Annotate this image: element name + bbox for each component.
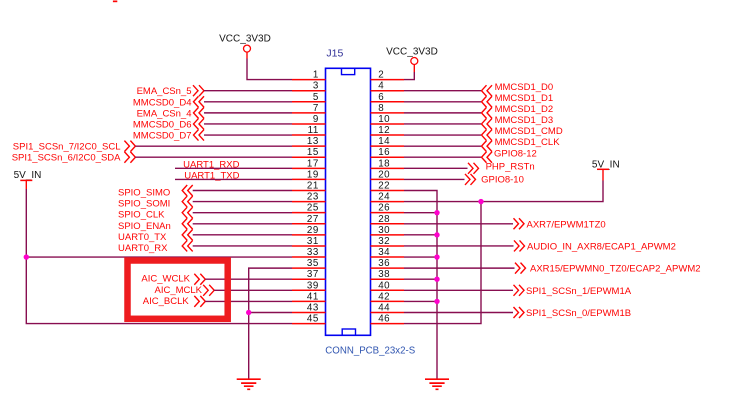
- svg-text:AUDIO_IN_AXR8/ECAP1_APWM2: AUDIO_IN_AXR8/ECAP1_APWM2: [527, 241, 676, 252]
- pin 26 (stub + number): [371, 203, 405, 214]
- svg-text:MMCSD0_D6: MMCSD0_D6: [133, 119, 192, 130]
- wire MMCSD0_D7 to pin 11: [204, 134, 292, 136]
- wire ground bus vertical (pins 22,26,30,34,38,42): [404, 191, 437, 380]
- pin 36 (stub + number): [371, 258, 405, 269]
- svg-text:44: 44: [378, 302, 390, 313]
- pin 45 (stub + number): [292, 314, 326, 325]
- wire pin 42 to ground bus: [404, 300, 437, 302]
- net label UART0_RX (pin 31): [118, 240, 193, 254]
- wire ground branch from pin24 row down to pin 46 row: [404, 202, 481, 324]
- pin 40 (stub + number): [371, 280, 405, 291]
- svg-text:15: 15: [307, 147, 319, 158]
- net label MMCSD1_D1 (pin 6): [482, 93, 554, 107]
- svg-text:39: 39: [307, 280, 319, 291]
- net label EMA_CSn_5 (pin 3): [137, 85, 204, 97]
- pin 31 (stub + number): [292, 236, 326, 247]
- svg-text:34: 34: [378, 247, 390, 258]
- svg-text:1: 1: [313, 70, 319, 81]
- highlight box around AIC_WCLK/AIC_MCLK/AIC_BCLK: [128, 261, 228, 319]
- svg-text:AIC_MCLK: AIC_MCLK: [154, 285, 202, 296]
- svg-text:CONN_PCB_23x2-S: CONN_PCB_23x2-S: [325, 346, 415, 357]
- svg-text:5: 5: [313, 92, 319, 103]
- wire AXR7/EPWM1TZ0 to pin 28: [404, 223, 513, 225]
- svg-text:36: 36: [378, 258, 390, 269]
- svg-text:7: 7: [313, 103, 319, 114]
- wire MMCSD1_D1 to pin 6: [404, 101, 481, 103]
- svg-text:AXR15/EPWMN0_TZ0/ECAP2_APWM2: AXR15/EPWMN0_TZ0/ECAP2_APWM2: [530, 264, 701, 275]
- net label SPIO_CLK (pin 25): [118, 207, 193, 221]
- pin 44 (stub + number): [371, 302, 405, 313]
- pin 25 (stub + number): [292, 203, 326, 214]
- net label MMCSD1_D3 (pin 10): [482, 115, 554, 129]
- svg-text:40: 40: [378, 280, 390, 291]
- net label MMCSD1_D2 (pin 8): [482, 104, 554, 118]
- net label SPI1_SCSn_1/EPWM1A (pin 40): [514, 285, 632, 297]
- junction ground bus pin 42: [434, 299, 439, 304]
- net label AIC_WCLK (pin 37): [141, 274, 205, 285]
- svg-text:UART0_RX: UART0_RX: [118, 243, 168, 254]
- wire MMCSD1_CMD to pin 12: [404, 134, 481, 136]
- junction ground bus pin 26: [434, 210, 439, 215]
- pin 29 (stub + number): [292, 225, 326, 236]
- svg-text:10: 10: [378, 114, 390, 125]
- net label EMA_CSn_4 (pin 7): [137, 107, 204, 119]
- wire AUDIO_IN_AXR8/ECAP1_APWM2 to pin 32: [404, 245, 514, 247]
- pin 4 (stub + number): [371, 81, 405, 92]
- pin 1 (stub + number): [292, 70, 326, 81]
- net label SPI1_SCSn_7/I2C0_SCL (pin 13): [13, 141, 136, 153]
- pin 27 (stub + number): [292, 214, 326, 225]
- wire MMCSD1_D0 to pin 4: [404, 90, 481, 92]
- wire MMCSD0_D6 to pin 9: [204, 123, 292, 125]
- svg-text:5V_IN: 5V_IN: [14, 170, 42, 181]
- pin 3 (stub + number): [292, 81, 326, 92]
- svg-text:MMCSD0_D7: MMCSD0_D7: [133, 131, 192, 142]
- wire UART1_RXD to pin 17: [175, 167, 292, 169]
- wire 5V_IN net (left): down to pin 33 junction, then pin 45: [26, 189, 292, 324]
- svg-text:MMCSD1_CLK: MMCSD1_CLK: [495, 137, 561, 148]
- svg-text:12: 12: [378, 125, 390, 136]
- svg-text:14: 14: [378, 136, 390, 147]
- wire pin 26 to ground bus: [404, 212, 437, 214]
- net label MMCSD1_CLK (pin 14): [482, 137, 561, 151]
- svg-text:11: 11: [308, 125, 319, 136]
- net label UART0_TX (pin 29): [118, 229, 193, 243]
- svg-text:AIC_WCLK: AIC_WCLK: [141, 274, 190, 285]
- svg-text:9: 9: [313, 114, 319, 125]
- pin 38 (stub + number): [371, 269, 405, 280]
- net label MMCSD1_CMD (pin 12): [482, 126, 563, 140]
- pin 22 (stub + number): [371, 181, 405, 192]
- svg-text:MMCSD1_D3: MMCSD1_D3: [495, 115, 554, 126]
- net label GPIO8-12 (pin 16): [482, 148, 537, 162]
- svg-text:46: 46: [378, 314, 390, 325]
- svg-text:33: 33: [307, 247, 319, 258]
- wire MMCSD1_D2 to pin 8: [404, 112, 481, 114]
- svg-text:SPIO_CLK: SPIO_CLK: [118, 210, 165, 221]
- wire VCC_3V3D to pin 2: [404, 72, 414, 80]
- pin 9 (stub + number): [292, 114, 326, 125]
- pin 5 (stub + number): [292, 92, 326, 103]
- svg-text:30: 30: [378, 225, 390, 236]
- net label SPIO_SIMO (pin 21): [118, 185, 193, 199]
- pin 17 (stub + number): [292, 158, 326, 169]
- svg-text:VCC_3V3D: VCC_3V3D: [219, 34, 271, 45]
- pin 18 (stub + number): [371, 158, 405, 169]
- pin 28 (stub + number): [371, 214, 405, 225]
- pin 41 (stub + number): [292, 291, 326, 302]
- svg-text:AIC_BCLK: AIC_BCLK: [143, 296, 190, 307]
- wire MMCSD1_CLK to pin 14: [404, 145, 481, 147]
- pin 15 (stub + number): [292, 147, 326, 158]
- pin 14 (stub + number): [371, 136, 405, 147]
- net label SPIO_ENAn (pin 27): [118, 218, 193, 232]
- pin 8 (stub + number): [371, 103, 405, 114]
- svg-text:16: 16: [378, 147, 390, 158]
- pin 43 (stub + number): [292, 302, 326, 313]
- pin 39 (stub + number): [292, 280, 326, 291]
- svg-text:8: 8: [378, 103, 384, 114]
- svg-text:4: 4: [378, 81, 384, 92]
- svg-text:22: 22: [378, 181, 390, 192]
- pin 10 (stub + number): [371, 114, 405, 125]
- wire GPIO8-12 to pin 16: [404, 156, 481, 158]
- wire SPIO_SIMO to pin 21: [193, 190, 292, 192]
- svg-text:6: 6: [378, 92, 384, 103]
- svg-text:20: 20: [378, 169, 390, 180]
- stray red mark (cropped object at top edge): [113, 1, 117, 3]
- svg-text:31: 31: [307, 236, 319, 247]
- svg-text:UART0_TX: UART0_TX: [118, 232, 167, 243]
- svg-text:42: 42: [378, 291, 390, 302]
- svg-text:41: 41: [307, 291, 319, 302]
- svg-text:MMCSD1_D2: MMCSD1_D2: [495, 104, 554, 115]
- net label GPIO8-10 (pin 20): [465, 174, 524, 186]
- pin 6 (stub + number): [371, 92, 405, 103]
- pin 24 (stub + number): [371, 192, 405, 203]
- pin 35 (stub + number): [292, 258, 326, 269]
- wire EMA_CSn_4 to pin 7: [204, 112, 292, 114]
- pin 16 (stub + number): [371, 147, 405, 158]
- wire EMA_CSn_5 to pin 3: [204, 90, 292, 92]
- power symbol 5V_IN (right): [592, 160, 620, 181]
- wire AXR15/EPWMN0_TZ0/ECAP2_APWM2 to pin 36: [404, 267, 515, 269]
- wire SPI1_SCSn_6/I2C0_SDA to pin 15: [135, 156, 292, 158]
- ground symbol (left): [237, 379, 261, 389]
- svg-text:MMCSD1_D0: MMCSD1_D0: [495, 82, 554, 93]
- wire VCC_3V3D to pin 1: [247, 59, 292, 80]
- svg-text:AXR7/EPWM1TZ0: AXR7/EPWM1TZ0: [527, 219, 606, 230]
- pin 2 (stub + number): [371, 70, 405, 81]
- wire GPIO8-10 to pin 20: [404, 178, 465, 180]
- net label MMCSD0_D7 (pin 11): [133, 130, 204, 142]
- svg-text:13: 13: [307, 136, 319, 147]
- pin 33 (stub + number): [292, 247, 326, 258]
- svg-text:29: 29: [307, 225, 319, 236]
- svg-text:21: 21: [307, 181, 319, 192]
- wire UART0_RX to pin 31: [193, 245, 292, 247]
- pin 34 (stub + number): [371, 247, 405, 258]
- junction 5V_IN / pin 33: [24, 254, 29, 259]
- svg-text:MMCSD1_CMD: MMCSD1_CMD: [495, 126, 563, 137]
- wire SPI1_SCSn_0/EPWM1B to pin 44: [404, 311, 513, 313]
- wire pin 38 to ground bus: [404, 278, 437, 280]
- wire pin 35 / pin 43 to ground: [249, 268, 292, 379]
- svg-text:18: 18: [378, 158, 390, 169]
- svg-text:28: 28: [378, 214, 390, 225]
- wire pin 33 net: [26, 256, 292, 258]
- svg-text:24: 24: [378, 192, 390, 203]
- net label MMCSD1_D0 (pin 4): [482, 82, 554, 96]
- ground symbol (right bus): [425, 379, 449, 389]
- wire UART1_TXD to pin 19: [175, 178, 292, 180]
- svg-text:MMCSD1_D1: MMCSD1_D1: [495, 93, 554, 104]
- net label MMCSD0_D6 (pin 9): [133, 118, 204, 130]
- pin 30 (stub + number): [371, 225, 405, 236]
- wire AIC_MCLK to pin 39: [214, 289, 292, 291]
- wire SPIO_ENAn to pin 27: [193, 223, 292, 225]
- net label AXR15/EPWMN0_TZ0/ECAP2_APWM2 (pin 36): [515, 263, 701, 275]
- wire SPI1_SCSn_1/EPWM1A to pin 40: [404, 289, 513, 291]
- svg-text:GPIO8-10: GPIO8-10: [481, 174, 524, 185]
- pin 7 (stub + number): [292, 103, 326, 114]
- net label SPIO_SOMI (pin 23): [118, 196, 193, 210]
- connector J15 body (CONN_PCB_23x2-S): [326, 68, 371, 335]
- pin 20 (stub + number): [371, 169, 405, 180]
- svg-text:26: 26: [378, 203, 390, 214]
- pin 21 (stub + number): [292, 181, 326, 192]
- wire AIC_WCLK to pin 37: [205, 278, 292, 280]
- svg-text:3: 3: [313, 81, 319, 92]
- svg-text:MMCSD0_D4: MMCSD0_D4: [133, 97, 192, 108]
- wire MMCSD0_D4 to pin 5: [204, 101, 292, 103]
- wire UART0_TX to pin 29: [193, 234, 292, 236]
- svg-text:45: 45: [307, 314, 319, 325]
- wire SPIO_CLK to pin 25: [193, 212, 292, 214]
- pin 23 (stub + number): [292, 192, 326, 203]
- svg-text:SPIO_SIMO: SPIO_SIMO: [118, 188, 170, 199]
- svg-text:J15: J15: [326, 48, 343, 60]
- svg-text:GPIO8-12: GPIO8-12: [494, 148, 537, 159]
- net label SPI1_SCSn_6/I2C0_SDA (pin 15): [12, 152, 136, 164]
- junction ground bus pin 38: [434, 277, 439, 282]
- net label PHP_RSTn (pin 18): [468, 161, 535, 174]
- junction pin 24 net / down branch: [478, 199, 483, 204]
- svg-text:25: 25: [307, 203, 319, 214]
- svg-text:EMA_CSn_5: EMA_CSn_5: [137, 86, 192, 97]
- pin 13 (stub + number): [292, 136, 326, 147]
- net label AIC_MCLK (pin 39): [154, 285, 214, 296]
- net label MMCSD0_D4 (pin 5): [133, 96, 204, 108]
- svg-text:SPI1_SCSn_6/I2C0_SDA: SPI1_SCSn_6/I2C0_SDA: [12, 153, 121, 164]
- power symbol VCC_3V3D (left, feeds pin 1): [219, 34, 271, 59]
- junction pin 43 / ground wire: [246, 310, 251, 315]
- wire pin 43 stub to vertical: [249, 311, 292, 313]
- svg-text:SPI1_SCSn_0/EPWM1B: SPI1_SCSn_0/EPWM1B: [526, 308, 631, 319]
- svg-text:32: 32: [378, 236, 390, 247]
- svg-text:SPIO_ENAn: SPIO_ENAn: [118, 221, 171, 232]
- pin 12 (stub + number): [371, 125, 405, 136]
- wire PHP_RSTn to pin 18: [404, 167, 468, 169]
- svg-text:19: 19: [307, 169, 319, 180]
- wire 5V_IN net (right) down to pin 24 row: [404, 181, 603, 202]
- svg-text:PHP_RSTn: PHP_RSTn: [486, 161, 535, 172]
- net label AUDIO_IN_AXR8/ECAP1_APWM2 (pin 32): [514, 240, 676, 252]
- wire SPI1_SCSn_7/I2C0_SCL to pin 13: [135, 145, 292, 147]
- svg-text:35: 35: [307, 258, 319, 269]
- pin 19 (stub + number): [292, 169, 326, 180]
- net label SPI1_SCSn_0/EPWM1B (pin 44): [514, 307, 632, 319]
- wire SPIO_SOMI to pin 23: [193, 201, 292, 203]
- power symbol 5V_IN (left): [14, 170, 42, 189]
- svg-text:EMA_CSn_4: EMA_CSn_4: [137, 108, 192, 119]
- pin 11 (stub + number): [292, 125, 326, 136]
- pin 46 (stub + number): [371, 314, 405, 325]
- power symbol VCC_3V3D (right, feeds pin 2): [386, 47, 438, 73]
- wire AIC_BCLK to pin 41: [205, 300, 292, 302]
- svg-text:2: 2: [378, 70, 384, 81]
- net label AIC_BCLK (pin 41): [143, 296, 206, 307]
- svg-text:SPI1_SCSn_1/EPWM1A: SPI1_SCSn_1/EPWM1A: [526, 286, 632, 297]
- pin 32 (stub + number): [371, 236, 405, 247]
- svg-text:37: 37: [307, 269, 319, 280]
- pin 37 (stub + number): [292, 269, 326, 280]
- pin 42 (stub + number): [371, 291, 405, 302]
- svg-text:38: 38: [378, 269, 390, 280]
- wire pin 30 to ground bus: [404, 234, 437, 236]
- junction ground bus pin 30: [434, 232, 439, 237]
- svg-text:27: 27: [307, 214, 319, 225]
- svg-text:17: 17: [307, 158, 319, 169]
- junction ground bus pin 34: [434, 254, 439, 259]
- wire MMCSD1_D3 to pin 10: [404, 123, 481, 125]
- svg-text:23: 23: [307, 192, 319, 203]
- net label AXR7/EPWM1TZ0 (pin 28): [514, 218, 606, 230]
- wire pin 34 to ground bus: [404, 256, 437, 258]
- svg-text:SPIO_SOMI: SPIO_SOMI: [118, 199, 170, 210]
- svg-text:SPI1_SCSn_7/I2C0_SCL: SPI1_SCSn_7/I2C0_SCL: [13, 142, 121, 153]
- svg-text:VCC_3V3D: VCC_3V3D: [386, 47, 438, 58]
- svg-text:43: 43: [307, 302, 319, 313]
